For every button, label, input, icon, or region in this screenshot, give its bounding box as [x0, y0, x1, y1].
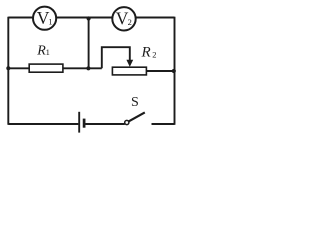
svg-text:S: S	[131, 95, 139, 110]
svg-text:R: R	[141, 45, 151, 61]
svg-text:2: 2	[128, 17, 132, 27]
svg-text:2: 2	[152, 49, 156, 59]
svg-text:1: 1	[46, 47, 50, 57]
svg-text:1: 1	[48, 16, 52, 26]
